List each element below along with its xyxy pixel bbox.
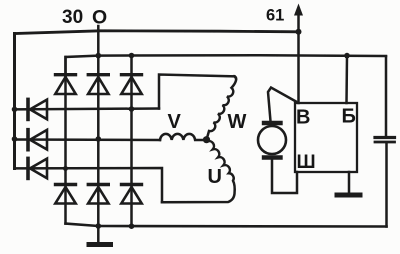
wire row1 riser to W bbox=[159, 75, 234, 109]
wire rotor top to B node bbox=[268, 88, 296, 122]
node star point bbox=[203, 136, 210, 143]
capacitor C1 bbox=[375, 57, 395, 227]
svg-text:Ш: Ш bbox=[297, 152, 316, 173]
node junction bus col2 bbox=[96, 53, 102, 59]
node junction 61 on top rail bbox=[296, 29, 302, 35]
regulator box bbox=[295, 103, 357, 172]
wire top rail 30 bbox=[15, 31, 299, 34]
node junction ground col3 bbox=[129, 223, 135, 229]
node junction bus to B terminal bbox=[344, 53, 350, 59]
wire rotor bottom to Sh terminal bbox=[272, 160, 297, 194]
node junction left rail row1 bbox=[12, 107, 18, 113]
terminal arrow 61 bbox=[294, 4, 303, 33]
svg-text:U: U bbox=[208, 166, 222, 188]
winding V bbox=[160, 134, 207, 140]
diode VD3 (top, phase 3) bbox=[121, 56, 141, 227]
node junction left rail row2 bbox=[12, 136, 18, 142]
svg-text:30: 30 bbox=[62, 7, 83, 28]
diode VD4 (left, phase 1) bbox=[28, 99, 47, 119]
node junction ground col2 bbox=[96, 223, 102, 229]
wire left rail bbox=[13, 34, 16, 169]
wire phase row2 bbox=[15, 138, 161, 141]
diode VD9 (bottom, phase 3) bbox=[121, 185, 141, 204]
node junction row3 col1 bbox=[63, 166, 68, 171]
brush bottom bbox=[264, 155, 281, 159]
wire phase row3 bbox=[15, 168, 163, 202]
winding W bbox=[207, 76, 237, 139]
diode VD1 (top, phase 1) bbox=[55, 57, 75, 224]
ground main bbox=[89, 226, 111, 245]
ground regulator bbox=[337, 172, 360, 195]
node junction bus col3 bbox=[129, 53, 135, 59]
svg-text:Б: Б bbox=[342, 106, 356, 128]
svg-text:O: O bbox=[92, 7, 107, 29]
diode VD6 (left, phase 3) bbox=[28, 158, 47, 178]
brush top bbox=[264, 121, 281, 125]
svg-text:W: W bbox=[228, 111, 247, 133]
terminal stub O bbox=[97, 26, 100, 56]
node junction row2 col2 bbox=[96, 136, 102, 142]
svg-text:V: V bbox=[168, 111, 182, 133]
diode VD8 (bottom, phase 2) bbox=[88, 185, 108, 204]
wire 61 to regulator B terminal bbox=[297, 32, 300, 103]
wire ground bus / bottom rail bbox=[66, 224, 387, 227]
svg-text:61: 61 bbox=[266, 7, 284, 25]
diode VD2 (top, phase 2) bbox=[88, 56, 108, 226]
node junction row1 col3 bbox=[129, 106, 135, 112]
winding U bbox=[162, 140, 235, 203]
wire phase row1 bbox=[15, 107, 160, 110]
wire positive bus bbox=[66, 55, 387, 76]
diode VD5 (left, phase 2) bbox=[28, 130, 47, 150]
svg-text:В: В bbox=[296, 107, 310, 129]
wire bus to B(b) terminal bbox=[345, 56, 348, 103]
rotor field winding (slip rings) bbox=[258, 88, 297, 194]
diode VD7 (bottom, phase 1) bbox=[55, 185, 75, 204]
